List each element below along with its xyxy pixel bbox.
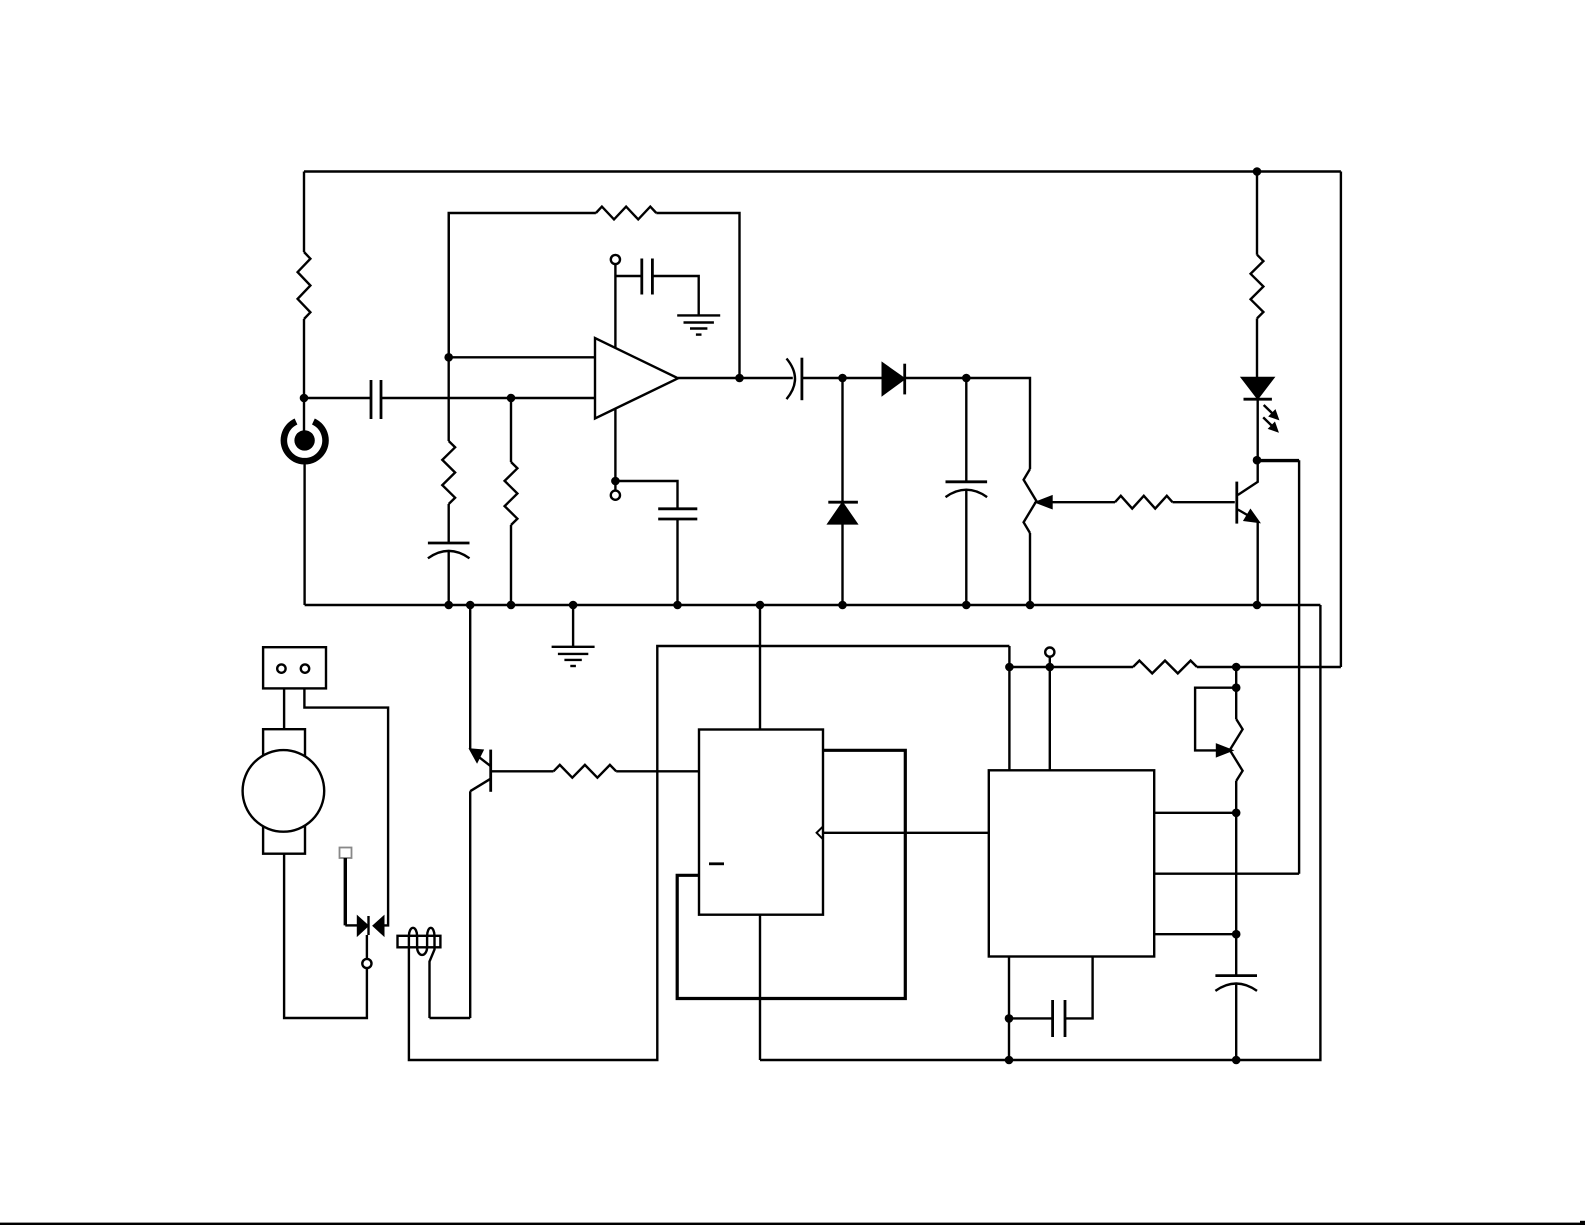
capacitor C7 [1009,957,1093,1038]
node Q1 collector junction [1253,456,1262,465]
wire F1 to Q2 collector [430,1017,471,1019]
node C8 ground [1232,1056,1241,1065]
potentiometer P1 [1024,469,1037,605]
wire U3 pin B [1154,873,1299,875]
page edge bar [0,1221,1585,1225]
node R8 wiper tie [1232,683,1241,692]
LED light arrows [1263,405,1279,432]
resistor R3 [505,398,518,605]
node D1 anode junction [838,374,847,383]
diode D2 [828,378,858,605]
IC U2 [699,730,823,915]
node C2 ground [444,601,453,610]
node D2 ground [838,601,847,610]
trigger square S1 [340,848,352,859]
terminal op-amp V- pin [611,481,620,500]
node LED supply tap [1253,167,1262,176]
clock chevron U2 [817,826,823,839]
wire R7 to right rail [1197,666,1341,668]
terminal diac bottom [362,959,371,968]
node R3 ground [507,601,516,610]
node C6 ground [962,601,971,610]
wire right supply drop [1340,172,1342,668]
node C6 top junction [962,374,971,383]
wire Q1 collector to U3 [1257,460,1299,874]
node Q2 emitter bus tap [466,601,475,610]
resistor R7 supply [1133,661,1197,674]
node pin A junction [1232,809,1241,818]
potentiometer R8 [1230,688,1243,976]
LED D3 [1242,378,1273,460]
wire ground bus right segment [760,605,1320,1060]
wire U2 to U3 [823,832,989,834]
transistor Q1 [1237,460,1259,605]
node mic input junction [300,394,309,403]
wire J1 pin1 to motor [283,688,285,729]
terminal U3 supply pin [1045,648,1054,771]
wire U2 top pin [759,605,761,730]
wire supply rail right [1009,666,1133,668]
connector J1 [263,647,326,688]
node ground bus tap [569,601,578,610]
node R8 top junction [1232,663,1241,672]
wire diac bar lead [366,935,368,959]
thermal fuse F1 [398,928,441,1018]
label U2 minus [709,862,724,865]
capacitor C8 polarized [1215,976,1257,1060]
capacitor C5 [787,358,843,401]
IC U3 [989,770,1154,956]
wiper arrow P1 [1037,497,1115,508]
wire main ground bus [305,604,1321,606]
wire C6 to P1 [966,378,1030,469]
node output feedback junction [735,374,744,383]
node Q1 emitter ground [1253,601,1262,610]
resistor R6 LED [1251,172,1264,378]
wire op-amp output [678,377,793,379]
wire U2 feedback loop [677,750,905,998]
wire op-amp noninverting input [449,356,595,358]
microphone MK1 [284,398,326,605]
wiper arrow R8 [1195,688,1236,756]
node U2 top bus tap [756,601,765,610]
resistor R1 [298,172,311,399]
wire op-amp V- lead [614,409,616,482]
diode D1 [843,364,967,395]
resistor R4 feedback [449,207,740,378]
resistor R9 base [554,765,617,778]
diac D4 [345,916,383,935]
node op-amp V- junction [611,477,620,486]
resistor R2 [442,441,455,543]
capacitor C1 [304,380,595,419]
capacitor C3 [615,259,698,316]
wire U3 pin C [1154,933,1236,935]
resistor R5 base [1115,496,1235,509]
ground op-amp bypass [677,315,720,334]
node C4 ground [673,601,682,610]
node U3 ground [1005,1056,1014,1065]
node U3 supply junction [1046,663,1055,672]
wire J1 pin2 to diac [304,688,388,925]
wire supply return left [409,646,1010,1060]
transistor Q2 [470,605,491,1018]
wire U2 bottom pin [759,915,761,1060]
wire motor to diac bottom [284,854,367,1018]
capacitor C2 polarized [428,543,470,605]
terminal op-amp V+ pin [611,255,620,264]
motor B1 [243,729,325,854]
node supply rail corner [1005,663,1014,672]
wire feedback branch vertical [448,213,450,441]
node C7 left junction [1005,1014,1014,1023]
wire op-amp V+ lead [614,264,616,348]
capacitor C6 polarized [946,378,988,605]
wire trigger gate thick [344,858,347,925]
op-amp U1 [595,338,678,419]
wire R9 to U2 [616,770,699,772]
ground main bus [552,605,595,666]
wire U3 pin A [1154,812,1236,814]
wire R8 top lead [1235,667,1237,688]
node P1 ground [1026,601,1035,610]
wire supply rail lower [1008,646,1010,770]
wire U3 bottom left pin [1008,957,1010,1061]
node feedback to input junction [444,353,453,362]
node pin C junction [1232,930,1241,939]
node C1 to R3 junction [507,394,516,403]
capacitor C4 [615,481,697,605]
wire top supply rail [304,170,1341,172]
wire Q2 base [491,770,554,772]
